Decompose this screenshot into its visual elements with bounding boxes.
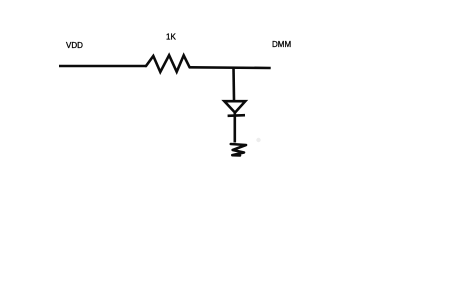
wire from diode to ground (234, 113, 237, 143)
resistor 1K zigzag (146, 55, 190, 72)
svg-text:DMM: DMM (272, 40, 291, 49)
faint smudge mark (256, 138, 260, 142)
svg-text:1K: 1K (166, 33, 176, 42)
wire from resistor to DMM (190, 66, 271, 69)
svg-text:VDD: VDD (66, 41, 83, 50)
wire from VDD to resistor (59, 65, 146, 68)
node junction / wire down to diode (232, 68, 235, 101)
diode D1 cathode bar (228, 114, 245, 117)
ground scribble symbol (231, 144, 246, 156)
diode D1 anode triangle (224, 101, 245, 112)
